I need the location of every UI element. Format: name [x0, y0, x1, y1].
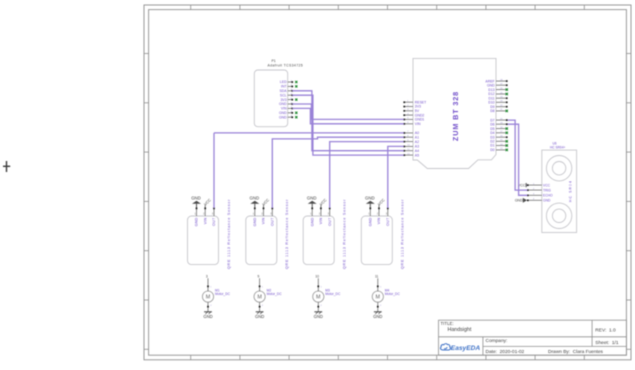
svg-text:A5: A5 — [415, 153, 419, 157]
svg-text:OUT: OUT — [386, 217, 390, 226]
svg-text:GND: GND — [279, 111, 287, 115]
svg-text:OUT: OUT — [328, 217, 332, 226]
svg-text:GND: GND — [250, 196, 260, 201]
svg-text:Handsight: Handsight — [448, 327, 472, 333]
svg-text:GND: GND — [310, 217, 314, 226]
U1 left pins RESET 3V3 5V GND2 GND1 VIN — [403, 100, 427, 126]
svg-text:D8: D8 — [490, 109, 494, 113]
svg-text:GND: GND — [515, 199, 523, 203]
M4 designator and value labels — [385, 288, 401, 296]
U1 right pins AREF GND D13 D12 D11 D10 D9 D8 — [485, 79, 507, 113]
U5 pins 1 2 3 (GND VIN OUT) — [368, 208, 390, 227]
svg-text:Sheet: 1/1: Sheet: 1/1 — [595, 340, 619, 346]
net label 11 above M4 — [375, 275, 379, 279]
svg-text:Adafruit TCS34725: Adafruit TCS34725 — [268, 63, 304, 67]
wire SDA from P1 to U1 A4 — [292, 91, 404, 151]
svg-text:VIN: VIN — [203, 217, 207, 224]
svg-text:Drawn By: Clara Fuentes: Drawn By: Clara Fuentes — [548, 349, 604, 355]
sensor U3 QRE1113 Reflectance Sensor — [246, 216, 277, 265]
svg-text:GND: GND — [191, 196, 201, 201]
svg-text:SCL: SCL — [280, 93, 287, 97]
P1 pins LED INT SDA SCL 3V3 GND VIN GND GND — [279, 80, 293, 119]
U5 name text QRE1113 Reflectance Sensor — [401, 199, 405, 269]
wire SCL from P1 to U1 A5 — [292, 95, 404, 155]
svg-text:VIN: VIN — [281, 107, 287, 111]
U1 right pins D7 D6 D5 D4 D3 D2 D1 D0 — [490, 118, 507, 152]
svg-text:INT: INT — [281, 85, 287, 89]
power VCC at U5 pin 2 — [377, 198, 386, 208]
U6 pins VCC TRIG ECHO GND — [527, 183, 553, 202]
svg-text:D6: D6 — [490, 122, 494, 126]
ground GND at U2 pin 1 — [191, 196, 201, 208]
wire ECHO from U1 D6 to U6 ECHO — [508, 124, 528, 195]
wire A1 from U3 OUT to U1 A1 — [272, 137, 404, 208]
svg-text:GND1: GND1 — [415, 118, 425, 122]
wire A2 from U4 OUT to U1 A2 — [330, 142, 404, 208]
net label 9 above M2 — [258, 275, 260, 279]
svg-text:3: 3 — [206, 275, 208, 279]
svg-text:M: M — [257, 295, 262, 301]
net label 3 above M1 — [206, 275, 208, 279]
P1 designator and value label — [268, 59, 304, 67]
svg-text:Company:: Company: — [486, 338, 508, 344]
svg-text:D4: D4 — [490, 131, 494, 135]
svg-text:HC SR04: HC SR04 — [568, 180, 572, 202]
svg-text:REV: 1.0: REV: 1.0 — [595, 327, 616, 333]
motor M3 Motor_DC — [313, 278, 324, 312]
svg-text:11: 11 — [375, 275, 379, 279]
wire VIN from P1 to U1 VIN — [292, 108, 404, 123]
svg-text:GND: GND — [307, 196, 317, 201]
U6 name text HC SR04 — [568, 180, 572, 202]
U1 no-connect marks — [506, 88, 509, 151]
svg-text:GND: GND — [195, 217, 199, 226]
power VCC at U6 — [518, 183, 527, 187]
U3 pins 1 2 3 (GND VIN OUT) — [253, 208, 275, 227]
svg-text:ECHO: ECHO — [543, 194, 553, 198]
svg-text:QRE 1113 Reflectance Sensor: QRE 1113 Reflectance Sensor — [227, 199, 231, 269]
wire A0 horizontal to U1 A0 — [214, 132, 404, 134]
motor M2 Motor_DC — [254, 278, 265, 312]
svg-text:GND: GND — [373, 314, 382, 319]
svg-text:GND: GND — [279, 102, 287, 106]
svg-text:GND: GND — [203, 314, 212, 319]
svg-text:EasyEDA: EasyEDA — [451, 345, 481, 352]
U1 value label ZUM BT 328 — [451, 91, 460, 141]
svg-text:GND: GND — [253, 217, 257, 226]
ground GND at U3 pin 1 — [250, 196, 260, 208]
U2 name text QRE1113 Reflectance Sensor — [227, 199, 231, 269]
U3 name text QRE1113 Reflectance Sensor — [285, 199, 289, 269]
svg-text:Motor_DC: Motor_DC — [325, 292, 341, 296]
svg-text:M: M — [206, 295, 211, 301]
wire A0 riser from U2 OUT — [213, 133, 215, 208]
svg-text:Date: 2020-01-02: Date: 2020-01-02 — [486, 349, 525, 355]
motor M1 Motor_DC — [202, 278, 213, 312]
svg-text:VIN: VIN — [262, 217, 266, 224]
wire TRIG from U1 D7 to U6 TRIG — [508, 120, 528, 190]
svg-text:TITLE:: TITLE: — [441, 321, 454, 326]
svg-text:VIN: VIN — [415, 122, 421, 126]
ground GND below M2 — [255, 312, 264, 319]
svg-text:A2: A2 — [415, 140, 419, 144]
U6 designator and value label — [550, 142, 565, 150]
M1 designator and value labels — [215, 288, 231, 296]
wire GND from P1 to U1 GND1 — [292, 104, 404, 119]
ground GND below M3 — [314, 312, 323, 319]
P1 no-connect marks — [295, 81, 297, 119]
IC U1 ZUM BT 328 — [413, 58, 496, 168]
svg-text:Motor_DC: Motor_DC — [215, 292, 231, 296]
power VCC at U4 pin 2 — [319, 198, 328, 208]
svg-text:GND: GND — [314, 314, 323, 319]
U4 name text QRE1113 Reflectance Sensor — [343, 199, 347, 269]
svg-text:9: 9 — [258, 275, 260, 279]
svg-text:D1: D1 — [490, 144, 494, 148]
wire A3 from U5 OUT to U1 A3 — [388, 146, 404, 208]
svg-text:QRE 1113 Reflectance Sensor: QRE 1113 Reflectance Sensor — [285, 199, 289, 269]
svg-text:A4: A4 — [415, 149, 419, 153]
sensor U4 QRE1113 Reflectance Sensor — [303, 216, 334, 265]
svg-text:QRE 1113 Reflectance Sensor: QRE 1113 Reflectance Sensor — [343, 199, 347, 269]
connector P1 Adafruit TCS34725 — [254, 70, 287, 127]
ground GND at U6 — [515, 198, 527, 203]
svg-text:D13: D13 — [488, 88, 494, 92]
svg-text:TRIG: TRIG — [543, 188, 551, 192]
svg-text:GND: GND — [369, 217, 373, 226]
svg-text:LED: LED — [280, 80, 287, 84]
power VCC at U2 pin 2 — [203, 198, 212, 208]
svg-text:GND: GND — [255, 314, 264, 319]
U4 pins 1 2 3 (GND VIN OUT) — [310, 208, 332, 227]
ground GND below M1 — [203, 312, 212, 319]
svg-text:SDA: SDA — [280, 89, 288, 93]
motor M4 Motor_DC — [372, 278, 383, 312]
svg-text:D0: D0 — [490, 148, 494, 152]
module U6 HC-SR04 ultrasonic sensor — [542, 150, 577, 232]
svg-text:ZUM BT 328: ZUM BT 328 — [451, 91, 460, 141]
svg-text:D10: D10 — [488, 101, 494, 105]
svg-text:Motor_DC: Motor_DC — [267, 292, 283, 296]
power VCC at U3 pin 2 — [262, 198, 271, 208]
svg-text:GND: GND — [365, 196, 375, 201]
ground GND at U5 pin 1 — [365, 196, 375, 208]
svg-text:GND: GND — [543, 199, 551, 203]
svg-text:HC SR04+: HC SR04+ — [550, 145, 565, 149]
svg-text:10: 10 — [315, 275, 319, 279]
svg-text:M: M — [316, 295, 321, 301]
svg-text:Motor_DC: Motor_DC — [385, 292, 401, 296]
ground GND at U4 pin 1 — [307, 196, 317, 208]
svg-text:A1: A1 — [415, 135, 419, 139]
svg-text:GND: GND — [279, 115, 287, 119]
svg-text:OUT: OUT — [271, 217, 275, 226]
svg-text:3V3: 3V3 — [280, 98, 286, 102]
U2 pins 1 2 3 (GND VIN OUT) — [194, 208, 216, 227]
svg-text:M: M — [376, 295, 381, 301]
sensor U5 QRE1113 Reflectance Sensor — [361, 216, 392, 265]
svg-text:OUT: OUT — [212, 217, 216, 226]
ground GND below M4 — [373, 312, 382, 319]
M3 designator and value labels — [325, 288, 341, 296]
svg-text:QRE 1113 Reflectance Sensor: QRE 1113 Reflectance Sensor — [401, 199, 405, 269]
net label 10 above M3 — [315, 275, 319, 279]
sensor U2 QRE1113 Reflectance Sensor — [188, 216, 219, 265]
svg-text:VIN: VIN — [377, 217, 381, 224]
svg-text:GND: GND — [487, 83, 495, 87]
M2 designator and value labels — [267, 288, 283, 296]
svg-text:VCC: VCC — [543, 183, 551, 187]
svg-text:VIN: VIN — [319, 217, 323, 224]
U1 left pins A0 A1 A2 A3 A4 A5 — [403, 131, 419, 157]
